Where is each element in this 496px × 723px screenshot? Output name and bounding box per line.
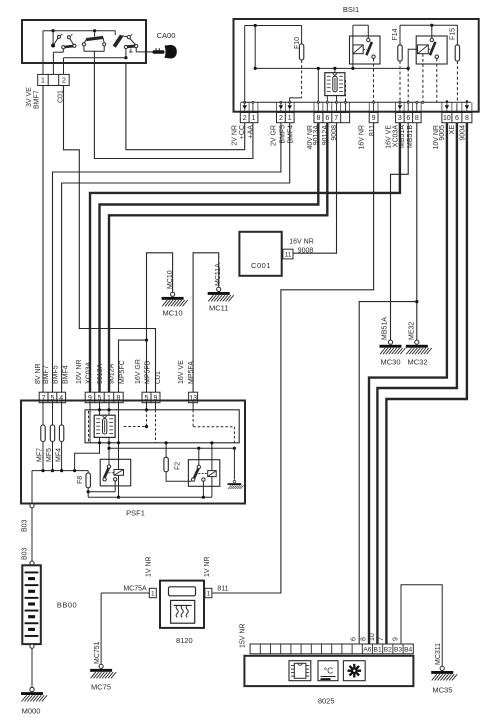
svg-text:15V NR: 15V NR: [240, 623, 247, 648]
svg-text:F10: F10: [294, 37, 301, 49]
PSF1 rail to relays: [108, 443, 110, 465]
svg-text:8V NR: 8V NR: [35, 363, 42, 384]
svg-text:MC11A: MC11A: [215, 263, 222, 286]
relay K1 in BSI1: [350, 36, 381, 64]
AC control unit 8025: [244, 656, 413, 686]
wire MP5FA to ground MC11: [193, 253, 219, 392]
svg-text:MC11: MC11: [209, 304, 228, 313]
svg-text:MC35: MC35: [432, 686, 452, 695]
wire 9008: [293, 123, 336, 254]
wire 9012A (thick): [109, 123, 327, 393]
svg-text:9012A: 9012A: [108, 363, 115, 384]
wire BMF5: [53, 123, 281, 393]
svg-text:MC75A: MC75A: [123, 586, 147, 593]
svg-text:F14: F14: [392, 28, 399, 40]
BSI1 feed rail top-left: [245, 25, 302, 27]
svg-text:XC03A: XC03A: [86, 361, 93, 384]
svg-text:°C: °C: [324, 666, 334, 676]
wire C01: [64, 86, 156, 393]
wire 811: [213, 123, 374, 593]
svg-text:MC10: MC10: [162, 309, 182, 318]
8120 pin 1 left: [149, 588, 156, 597]
svg-text:7: 7: [334, 115, 338, 122]
svg-text:M000: M000: [22, 707, 41, 716]
svg-text:8: 8: [465, 115, 469, 122]
PSF1 internal risers from pins: [42, 400, 44, 425]
svg-text:MC10: MC10: [167, 270, 174, 289]
svg-text:1: 1: [151, 590, 155, 597]
fuse F10: [301, 26, 303, 45]
ground MC32: [406, 340, 432, 354]
svg-text:PSF1: PSF1: [126, 509, 145, 518]
svg-text:2: 2: [243, 115, 247, 122]
fuse F2: [165, 443, 167, 458]
svg-text:F15: F15: [450, 28, 457, 40]
key icon: [146, 51, 153, 53]
svg-text:3V VE: 3V VE: [26, 87, 33, 107]
BSI1 connector 10V NR pins 10,6,8: [442, 113, 472, 123]
wire BMF7: [42, 86, 44, 393]
BSI1 connector 2V GR pins 2,1: [277, 113, 295, 123]
wire 6 to 8025 A6: [359, 302, 417, 644]
svg-text:1: 1: [252, 115, 256, 122]
svg-text:9: 9: [393, 637, 400, 641]
relay K4 in PSF1: [188, 460, 219, 487]
BSI1 connector 16V NR pin 9: [369, 113, 378, 123]
wire 9013A (thick): [100, 123, 319, 393]
wire B03: [31, 508, 33, 561]
BSI1 connector strip line: [241, 101, 471, 103]
svg-text:F8: F8: [77, 476, 84, 484]
CA00 internal feed rail: [43, 30, 115, 32]
fuse F14: [399, 25, 401, 45]
svg-text:9013A: 9013A: [97, 363, 104, 384]
svg-text:8: 8: [316, 115, 320, 122]
fuse/relay box PSF1: [21, 401, 245, 504]
8025 icon snowflake: [343, 661, 365, 681]
wire MB51B to MC32: [416, 123, 418, 340]
BSI1 pin stubs: [252, 103, 254, 112]
svg-text:B2: B2: [384, 647, 392, 654]
svg-text:10: 10: [443, 115, 451, 122]
svg-text:1: 1: [288, 115, 292, 122]
svg-text:2: 2: [279, 115, 283, 122]
svg-text:BMF7: BMF7: [34, 90, 41, 109]
wire MP5FB to ground MC10: [147, 253, 173, 340]
BSI1 pin entry circles: [244, 101, 246, 103]
svg-text:16V NR: 16V NR: [289, 239, 314, 246]
svg-text:6: 6: [455, 115, 459, 122]
PSF1 internal block: [85, 410, 239, 443]
svg-text:MP5FA: MP5FA: [188, 361, 195, 384]
wire BMF4: [62, 123, 290, 393]
wire to ground MC75: [100, 593, 102, 664]
PSF1 fuse bus to battery output: [42, 442, 44, 471]
BSI1 connector 40V NR pins 8,6,7: [314, 113, 350, 123]
8120 internal fuse: [169, 587, 196, 596]
svg-text:ME32: ME32: [408, 322, 415, 340]
BSI1 feed triangles: [243, 105, 247, 109]
BSI1 spare pin dashed link: [345, 80, 347, 102]
svg-text:2: 2: [62, 78, 66, 85]
svg-text:1: 1: [207, 590, 211, 597]
fuse F15: [456, 25, 458, 45]
PSF1 jog module to fuse bus: [75, 443, 100, 471]
PSF1 internal ground: [233, 448, 235, 479]
wire +CC: [126, 63, 245, 150]
svg-text:MC751: MC751: [94, 641, 101, 664]
svg-text:9004: 9004: [459, 125, 466, 141]
svg-text:9005: 9005: [439, 125, 446, 141]
svg-text:MP5FB: MP5FB: [144, 360, 151, 384]
svg-text:16V VE: 16V VE: [178, 360, 185, 384]
svg-text:B4: B4: [404, 647, 412, 654]
svg-text:811: 811: [369, 125, 376, 136]
8025 icon temperature: [318, 661, 338, 681]
8120 heating element: [171, 600, 195, 623]
svg-text:6: 6: [351, 637, 358, 641]
module in PSF1: [94, 415, 115, 437]
svg-text:7: 7: [378, 637, 385, 641]
svg-text:3: 3: [398, 115, 402, 122]
svg-text:B1: B1: [374, 647, 382, 654]
svg-text:1V NR: 1V NR: [204, 556, 211, 577]
svg-text:7: 7: [42, 395, 46, 402]
svg-text:1V NR: 1V NR: [146, 556, 153, 577]
svg-text:2V NR: 2V NR: [231, 125, 238, 146]
8120 pin 1 right: [205, 588, 212, 597]
svg-text:2V GR: 2V GR: [271, 125, 278, 146]
svg-text:8025: 8025: [318, 697, 335, 706]
svg-text:BMF7: BMF7: [43, 365, 50, 384]
C001 pin 11: [283, 249, 293, 259]
BSI1 connector 16V VE pins 3,6,8: [396, 113, 422, 123]
svg-text:B03: B03: [22, 519, 29, 532]
BSI1 connector 2V NR pins 2,1: [240, 113, 258, 123]
CA00 connector C01 cells 1-2: [42, 63, 44, 74]
PSF1 pins 10V NR 9,5,1,8: [85, 392, 123, 403]
connector unit C001: [239, 232, 281, 276]
PSF1 module bottom junctions: [98, 441, 101, 444]
svg-text:BMF5: BMF5: [53, 365, 60, 384]
svg-text:11: 11: [285, 251, 292, 258]
CA00 switch section 2 (accessory contact): [94, 31, 96, 37]
ground MC10: [162, 292, 188, 306]
ground M000: [30, 687, 34, 691]
CA00 switch section 3 (+CC contact): [114, 31, 116, 35]
fuses MF7 MF5 MF4: [41, 425, 45, 442]
svg-text:16V NR: 16V NR: [359, 125, 366, 150]
svg-text:10V NR: 10V NR: [76, 359, 83, 384]
svg-text:MP5FC: MP5FC: [119, 360, 126, 384]
svg-text:BSI1: BSI1: [343, 5, 359, 14]
svg-text:8: 8: [415, 115, 419, 122]
ground MC11: [208, 287, 234, 301]
heater unit 8120: [160, 581, 204, 628]
ground MC30: [380, 340, 406, 354]
wire 9005 (thick): [369, 123, 447, 644]
wire battery to ground: [30, 644, 34, 648]
relay K2 coil to pin MB51B dashed: [422, 54, 424, 103]
BSI1 internal rail mid: [254, 26, 256, 69]
svg-text:9008: 9008: [298, 248, 314, 255]
svg-text:BMF4: BMF4: [288, 125, 295, 144]
wire 9 to ground MC35: [401, 585, 442, 667]
svg-text:+AA: +AA: [248, 125, 255, 139]
PSF1 pins 16V GR 5,9: [142, 392, 160, 403]
svg-text:9: 9: [372, 115, 376, 122]
8025 connector strip: [250, 644, 413, 654]
wire MB51A to MC30: [391, 123, 409, 340]
wire 9004 (thick): [386, 123, 467, 644]
wire +AA: [94, 63, 253, 159]
svg-text:B03: B03: [22, 547, 29, 560]
battery BB00: [22, 565, 41, 644]
PSF1 pin 16V VE 13: [189, 392, 198, 403]
svg-text:6: 6: [325, 115, 329, 122]
8025 icon IC: [289, 661, 311, 681]
CA00 switch section 1 (start contacts): [42, 31, 44, 63]
svg-text:XE: XE: [449, 125, 456, 135]
svg-text:B3: B3: [394, 647, 402, 654]
svg-text:8: 8: [361, 637, 368, 641]
relay K2 in BSI1: [416, 36, 447, 64]
wire XC03A (thick): [90, 123, 400, 393]
control unit BSI1: [234, 19, 479, 112]
svg-text:MB51A: MB51A: [382, 317, 389, 340]
svg-text:1: 1: [41, 78, 45, 85]
relay K3 in PSF1: [100, 459, 131, 486]
svg-text:C01: C01: [155, 371, 162, 384]
PSF1 pins 8V NR 7,5,4: [39, 392, 65, 403]
svg-text:F2: F2: [175, 462, 182, 470]
BSI1 +CC internal riser: [244, 26, 246, 103]
ignition switch unit CA00: [22, 20, 146, 63]
svg-text:C001: C001: [251, 261, 271, 270]
fuse F8: [87, 471, 89, 473]
svg-text:MC75: MC75: [91, 683, 111, 692]
svg-text:BMF4: BMF4: [63, 365, 70, 384]
svg-text:16V GR: 16V GR: [135, 359, 142, 384]
wire MC75A: [101, 592, 149, 594]
svg-text:8120: 8120: [176, 636, 193, 645]
ground MC35: [431, 666, 457, 680]
svg-text:A6: A6: [363, 647, 371, 654]
svg-text:MC32: MC32: [407, 358, 427, 367]
link MP5FC-MP5FB: [119, 340, 147, 392]
wire XE (thick): [377, 123, 457, 644]
svg-text:811: 811: [217, 586, 228, 593]
svg-text:6: 6: [406, 115, 410, 122]
svg-text:BB00: BB00: [57, 601, 77, 610]
BSI1 riser to pin 8: [317, 68, 319, 102]
PSF1 bottom rail: [88, 496, 212, 498]
svg-text:10: 10: [369, 633, 376, 641]
ground MC75: [90, 664, 116, 678]
svg-text:CA00: CA00: [157, 31, 176, 40]
svg-text:MC311: MC311: [435, 643, 442, 665]
PSF1 output pin to battery: [30, 504, 34, 508]
svg-text:MC30: MC30: [380, 358, 400, 367]
electronic module in BSI1: [325, 73, 345, 96]
